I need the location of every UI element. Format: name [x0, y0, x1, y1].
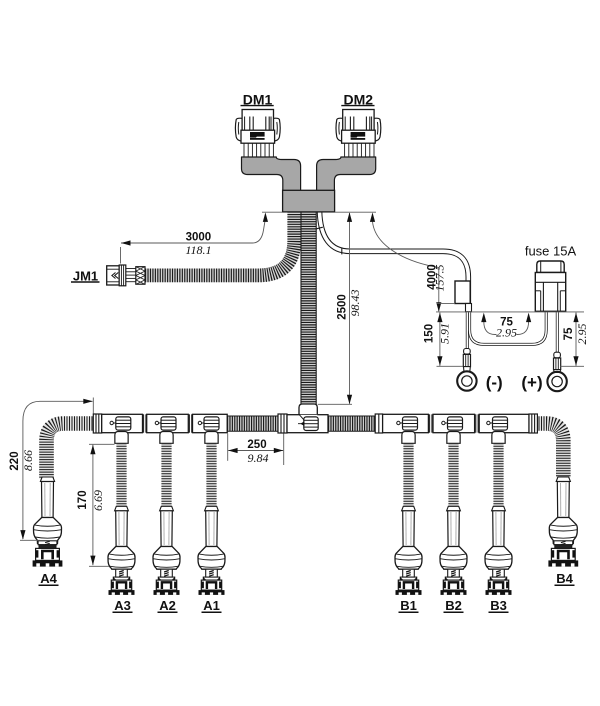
reference line under sleeve left [262, 211, 282, 213]
label B1 [399, 598, 419, 613]
label A3 [113, 598, 133, 613]
injector lead A1 [198, 432, 225, 595]
reference line at shrink sleeve bottom [437, 302, 456, 304]
rail divider A2-A1 [189, 414, 191, 432]
connector DM2 [336, 110, 381, 158]
takeout B2 [442, 417, 463, 430]
svg-text:B4: B4 [556, 571, 573, 586]
rail segment B2 [433, 414, 475, 432]
ring terminal (-) [457, 349, 476, 391]
corrugated trunk [301, 212, 316, 405]
label plus [521, 373, 542, 392]
rail divider B2-B3 [476, 414, 478, 432]
injector lead A2 [153, 432, 180, 595]
wire loom from JM1 to trunk [145, 212, 294, 276]
reference line at rail T top [318, 403, 352, 405]
takeout A1 [198, 417, 219, 430]
rail segment A2 [147, 414, 189, 432]
rail divider A3-A2 [144, 414, 146, 432]
wire loop to fuse [470, 312, 547, 345]
fuse holder [535, 261, 565, 311]
svg-text:B1: B1 [400, 598, 417, 613]
label A1 [202, 598, 222, 613]
connector JM1 [107, 265, 145, 286]
svg-text:98.43: 98.43 [348, 290, 362, 317]
label fuse 15A [525, 244, 577, 259]
T junction housing [287, 404, 328, 433]
rail end bars right of T [375, 414, 382, 433]
dimension 170 / 6.69 [77, 444, 115, 566]
svg-text:150: 150 [424, 324, 436, 343]
svg-text:A4: A4 [40, 571, 57, 586]
corrugated elbow to B4 [536, 424, 563, 478]
svg-text:9.84: 9.84 [248, 451, 269, 465]
svg-text:2.95: 2.95 [575, 324, 589, 345]
dimension 250 / 9.84 [228, 434, 284, 466]
svg-text:220: 220 [9, 451, 21, 470]
connector DM1 [235, 110, 280, 158]
boot B4 [548, 477, 578, 567]
label B4 [555, 571, 575, 586]
svg-text:B2: B2 [445, 598, 462, 613]
rail segment B3 [479, 414, 529, 432]
wire to fuse circuit [316, 211, 468, 308]
svg-text:fuse 15A: fuse 15A [525, 244, 577, 259]
gray tube arm from DM2 [317, 157, 376, 192]
svg-text:250: 250 [247, 439, 266, 451]
svg-text:A3: A3 [114, 598, 131, 613]
dimension 220 / 8.66 [9, 398, 93, 541]
svg-text:170: 170 [77, 490, 89, 509]
svg-text:2.95: 2.95 [496, 326, 517, 340]
svg-text:2500: 2500 [337, 294, 349, 320]
dimension 75 / 2.95 right [563, 313, 589, 366]
reference line at crimp left [437, 365, 464, 367]
injector lead B1 [395, 432, 422, 595]
label DM2 [341, 91, 374, 107]
svg-text:75: 75 [563, 327, 575, 340]
svg-text:157.5: 157.5 [433, 265, 447, 292]
wire from fuse to (+) terminal [556, 312, 559, 353]
svg-text:A2: A2 [159, 598, 176, 613]
injector lead B2 [440, 432, 467, 595]
takeout A2 [155, 417, 176, 430]
injector lead B3 [485, 432, 512, 595]
ring terminal (+) [547, 352, 566, 391]
rail left end cap [93, 414, 101, 433]
label A2 [158, 598, 178, 613]
takeout B1 [397, 417, 418, 430]
dimension 75 / 2.95 middle [481, 313, 531, 340]
dimension 3000 / 118.1 [121, 212, 269, 263]
injector lead A3 [108, 432, 135, 595]
svg-text:5.91: 5.91 [438, 323, 452, 344]
corrugated elbow to A4 [47, 424, 96, 479]
label B3 [489, 598, 509, 613]
svg-text:8.66: 8.66 [21, 450, 35, 471]
label B2 [444, 598, 464, 613]
rail corrugated segment T to B1 [328, 416, 376, 431]
gray tube arm from DM1 [242, 157, 301, 192]
svg-text:B3: B3 [490, 598, 507, 613]
rail segment A3 [102, 414, 143, 432]
dimension 2500 / 98.43 [337, 212, 363, 404]
heat shrink sleeve on fuse branch [455, 281, 472, 312]
svg-text:A1: A1 [203, 598, 220, 613]
rail segment B1 [383, 414, 429, 432]
boot A4 [33, 477, 63, 567]
label minus [486, 373, 503, 392]
reference line at crimp right [561, 365, 585, 367]
rail right end cap [529, 414, 537, 433]
svg-text:118.1: 118.1 [185, 243, 211, 257]
dimension 4000 / 157.5 [370, 212, 447, 311]
svg-text:6.69: 6.69 [91, 490, 105, 511]
label DM1 [241, 91, 274, 107]
svg-text:(-): (-) [486, 373, 503, 392]
takeout B3 [487, 417, 508, 430]
rail divider B1-B2 [430, 414, 432, 432]
T takeout symbol [298, 417, 318, 431]
reference line under sleeve right [335, 211, 376, 213]
rail corrugated segment A1 to T [227, 416, 278, 431]
rail end bars left of T [278, 414, 287, 433]
wire to (-) terminal [466, 312, 469, 349]
central sleeve [283, 190, 335, 212]
svg-text:(+): (+) [521, 373, 542, 392]
takeout A3 [110, 417, 131, 430]
dimension 150 / 5.91 [424, 313, 452, 366]
label JM1 [71, 269, 100, 284]
label A4 [39, 571, 59, 586]
reference line at wire exit [436, 311, 584, 313]
rail segment A1 [193, 414, 228, 432]
